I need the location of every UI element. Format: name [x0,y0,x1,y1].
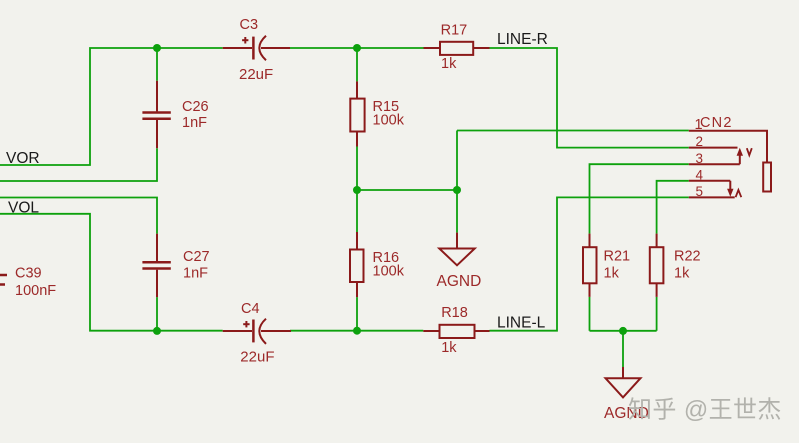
svg-text:1nF: 1nF [183,266,208,282]
resistor R16 [350,232,405,297]
resistor R15 [350,81,404,146]
pin 4 [689,180,731,182]
capacitor C4 [223,301,291,366]
svg-text:22uF: 22uF [239,66,273,83]
wire R21 bottom [589,297,591,331]
capacitor C27 [142,234,209,297]
svg-text:LINE-R: LINE-R [497,31,548,48]
connector CN2 [689,115,771,199]
wire CN2 pin1 [457,130,689,132]
pin 3 [689,163,740,165]
svg-text:22uF: 22uF [240,349,274,366]
wire row3 to C27 top [0,198,157,234]
ground AGND2 [604,367,649,422]
wire R16 top stub [356,190,358,232]
node junction bottom C27 [153,327,161,335]
svg-text:100nF: 100nF [15,283,56,299]
svg-text:C4: C4 [241,301,260,317]
wire row2 to C26 bottom [0,148,157,181]
capacitor C26 [142,81,208,148]
wire AGND1 branch [456,131,458,233]
node junction top C26 [153,44,161,52]
wire bottom net mid segment [290,330,423,332]
svg-text:1k: 1k [604,266,620,282]
svg-text:知乎 @王世杰: 知乎 @王世杰 [628,397,782,424]
wire LINE-R segment to CN2 pin2 [490,48,689,148]
svg-text:R17: R17 [441,22,468,38]
wire R21-R22 common [590,330,657,332]
svg-text:C27: C27 [183,249,210,265]
wire CN2 pin4 to R22 [657,181,689,234]
pin 5 [689,196,735,198]
svg-text:1nF: 1nF [182,115,207,131]
svg-text:1k: 1k [441,56,457,72]
svg-text:R21: R21 [604,249,631,265]
pin 1 [689,131,767,163]
svg-text:VOL: VOL [8,199,39,216]
svg-text:100k: 100k [373,263,405,279]
wire C27 bottom stub [156,297,158,331]
svg-text:C26: C26 [182,99,209,115]
wire C26 top stub [156,48,158,81]
svg-text:1k: 1k [674,266,690,282]
wire R15 top stub [356,48,358,81]
ground AGND1 [437,233,482,290]
wire AGND2 branch [622,331,624,367]
wire R16 bottom stub [356,297,358,331]
wire R22 bottom [656,297,658,331]
pin 2 [689,147,738,149]
svg-text:1k: 1k [441,340,457,356]
node junction mid R15 [353,186,361,194]
svg-text:C3: C3 [240,17,259,33]
wire LINE-L segment to CN2 pin5 [490,197,689,330]
resistor R21 [583,234,630,297]
wire CN2 pin3 to R21 [590,164,689,233]
resistor R18 [423,305,489,356]
wire top net mid segment [290,47,424,49]
wire top net y=48 left segment [0,48,223,165]
svg-text:AGND: AGND [437,273,482,290]
node junction top R15 [353,44,361,52]
svg-text:100k: 100k [373,113,405,129]
node junction mid AGND [453,186,461,194]
svg-text:4: 4 [696,167,704,182]
resistor R22 [650,234,701,297]
svg-text:5: 5 [696,184,704,199]
resistor R17 [424,22,490,72]
wire R15 bottom stub [356,147,358,191]
svg-text:C39: C39 [15,266,42,282]
svg-text:3: 3 [696,151,704,166]
svg-text:R22: R22 [674,249,701,265]
wire VOL net [0,214,223,331]
svg-text:2: 2 [696,134,704,149]
svg-text:VOR: VOR [6,150,40,167]
svg-text:LINE-L: LINE-L [497,315,546,332]
capacitor C39 (edge fragment) [0,266,56,300]
svg-text:CN2: CN2 [700,115,733,131]
node junction R21-R22 [619,327,627,335]
capacitor C3 [223,17,290,83]
wire mid net [357,189,457,191]
svg-text:R18: R18 [441,305,468,321]
node junction bottom R16 [353,327,361,335]
